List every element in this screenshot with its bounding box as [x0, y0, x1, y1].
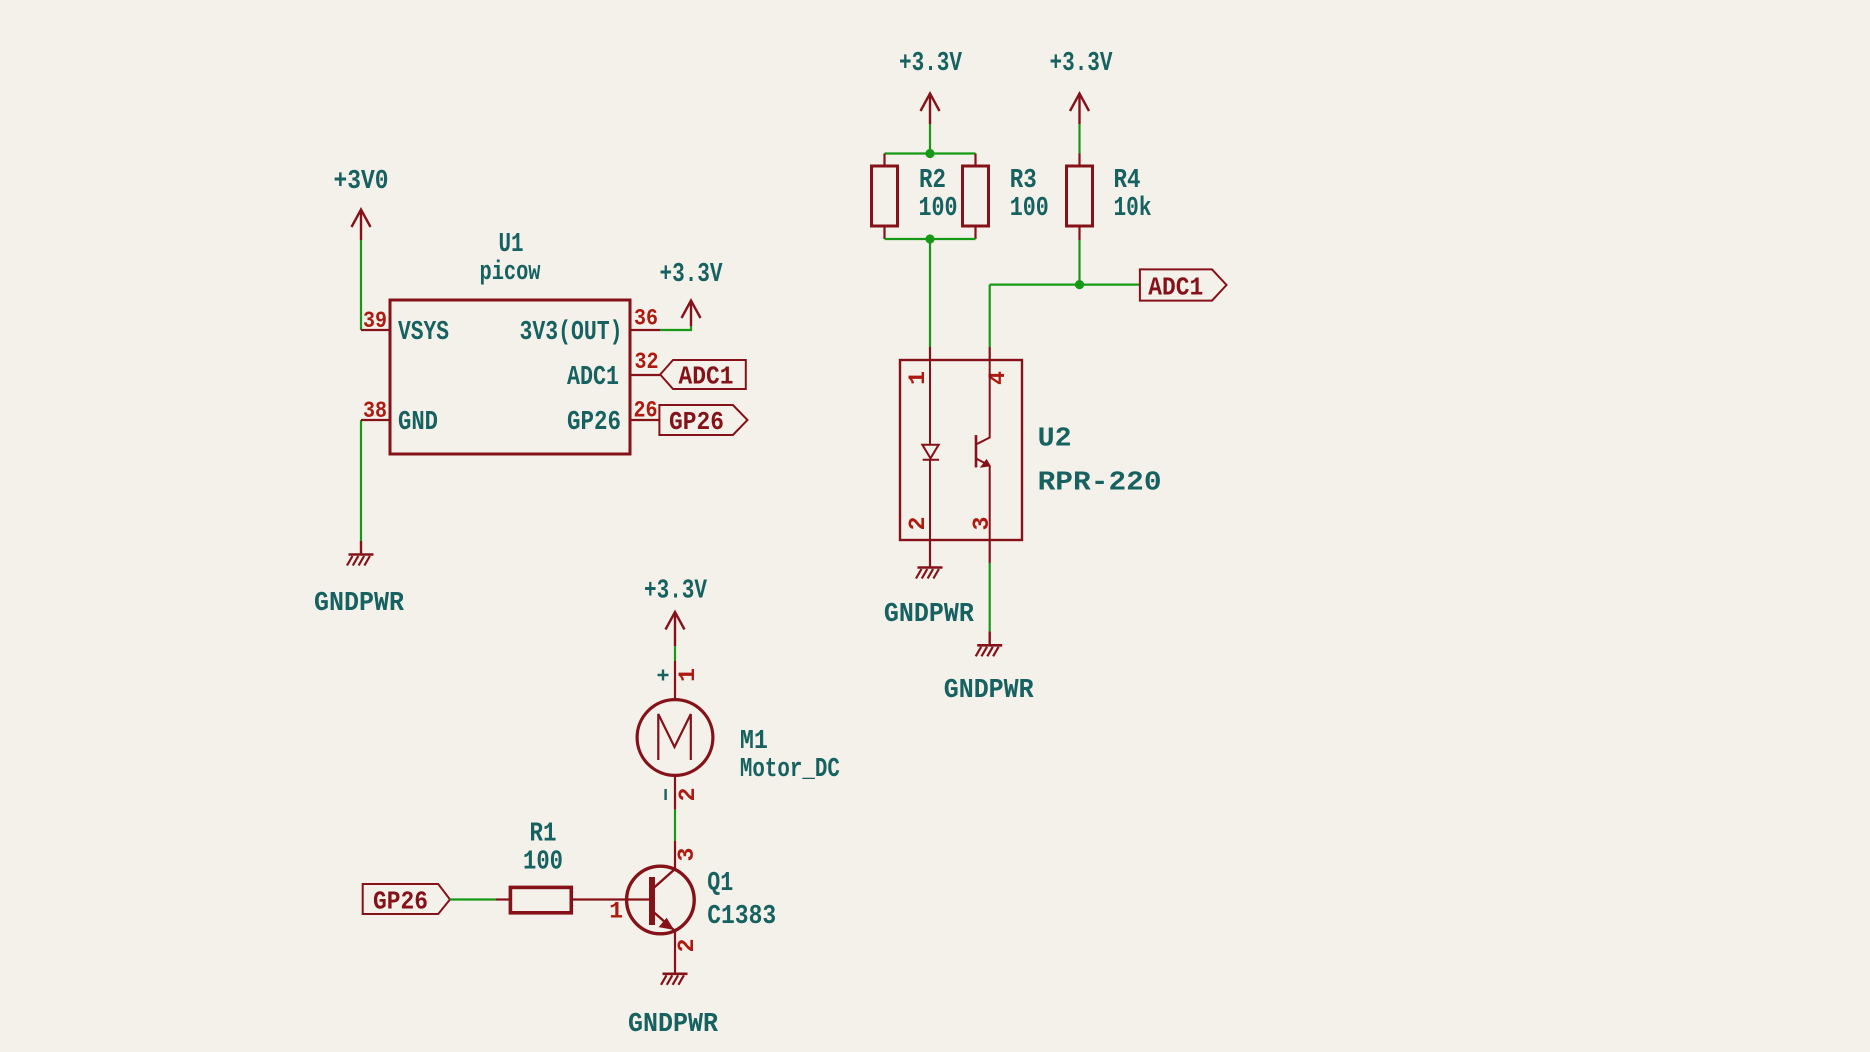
IC U1 picow body: [390, 300, 630, 454]
svg-text:GP26: GP26: [567, 408, 621, 438]
pin 36 3V3(OUT): [630, 329, 660, 331]
svg-text:M1: M1: [740, 727, 768, 757]
Q1 emitter stroke: [653, 912, 675, 932]
U2 phototransistor Q: [976, 360, 990, 540]
svg-text:GNDPWR: GNDPWR: [944, 676, 1035, 706]
svg-text:3V3(OUT): 3V3(OUT): [520, 318, 623, 348]
svg-text:U1: U1: [499, 230, 524, 260]
U2 pin 3 stub: [989, 540, 991, 563]
hier label GP26 (net): [363, 884, 450, 916]
wire motor to Q1 collector: [674, 810, 676, 841]
svg-text:R1: R1: [530, 820, 557, 850]
Q1 collector stroke: [653, 869, 675, 889]
U2 pin 4 stub: [989, 347, 991, 360]
pin 32 ADC1: [630, 374, 660, 376]
wire power to motor: [674, 646, 676, 661]
svg-text:GND: GND: [398, 408, 438, 438]
wire power to R4: [1078, 124, 1080, 154]
power symbol +3V0: [334, 167, 389, 240]
svg-text:ADC1: ADC1: [1148, 273, 1203, 303]
wire U2 pin3 to ground: [989, 563, 991, 631]
svg-text:100: 100: [1010, 194, 1049, 224]
pin 26 GP26: [630, 419, 659, 421]
resistor R3: [963, 154, 1049, 240]
resistor R4: [1067, 154, 1152, 241]
svg-text:1: 1: [675, 668, 701, 682]
ground GNDPWR (Q1): [628, 974, 719, 1040]
motor minus polarity: [664, 789, 666, 800]
svg-text:GNDPWR: GNDPWR: [884, 600, 975, 630]
svg-text:10k: 10k: [1114, 194, 1152, 224]
svg-text:3: 3: [969, 517, 995, 531]
wire power to top rail: [929, 124, 931, 154]
resistor R2: [872, 154, 958, 240]
svg-text:GNDPWR: GNDPWR: [628, 1010, 719, 1040]
power symbol +3.3V (motor): [644, 577, 708, 647]
svg-text:100: 100: [919, 194, 958, 224]
U2 pin 2 line: [929, 540, 931, 568]
svg-text:1: 1: [905, 371, 931, 385]
Q1 emitter arrow: [661, 920, 673, 929]
junction top rail: [925, 149, 934, 158]
wire R1 to Q1 base: [571, 898, 652, 900]
wire junction to U2 pin1: [929, 239, 931, 347]
junction ADC1 node: [1075, 280, 1084, 289]
wire GP26 to R1: [450, 898, 496, 900]
Q1 base bar: [649, 877, 655, 925]
wire bottom rail R2-R3: [885, 238, 976, 240]
svg-text:R3: R3: [1010, 166, 1037, 196]
ground GNDPWR (U2 pin3): [944, 631, 1035, 706]
wire node to U2 pin4: [989, 285, 991, 347]
svg-text:26: 26: [634, 398, 658, 424]
resistor R1: [496, 820, 572, 913]
U2 photodiode D: [922, 360, 939, 540]
svg-text:36: 36: [634, 306, 658, 332]
ground GNDPWR (U2 pin2): [884, 568, 975, 631]
svg-text:3: 3: [674, 848, 700, 862]
svg-text:+3.3V: +3.3V: [1050, 49, 1114, 79]
wire GND to ground: [360, 420, 362, 541]
wire +3V0 to VSYS: [360, 240, 362, 330]
motor plus polarity: [658, 670, 669, 681]
power symbol +3.3V (U1 pin36): [660, 260, 724, 326]
motor M1 body: [637, 700, 713, 776]
wire R4 to ADC1 node: [1078, 240, 1080, 285]
svg-text:100: 100: [523, 848, 563, 878]
svg-text:RPR-220: RPR-220: [1038, 469, 1162, 499]
hier label GP26 (U1): [659, 405, 747, 437]
svg-text:Q1: Q1: [707, 869, 733, 899]
U2 pin 1 stub: [929, 347, 931, 360]
svg-text:C1383: C1383: [707, 902, 776, 932]
svg-text:+3.3V: +3.3V: [660, 260, 724, 290]
svg-text:32: 32: [635, 349, 659, 375]
svg-text:2: 2: [675, 788, 701, 802]
svg-text:+3V0: +3V0: [334, 167, 389, 197]
power symbol +3.3V (R4): [1050, 49, 1114, 124]
transistor Q1 body: [627, 866, 695, 934]
svg-text:U2: U2: [1038, 425, 1072, 455]
svg-text:picow: picow: [480, 258, 542, 288]
Q1 collector pin: [674, 841, 676, 869]
svg-text:2: 2: [674, 939, 700, 953]
power symbol +3.3V (R2/R3): [899, 49, 963, 124]
svg-text:2: 2: [905, 517, 931, 531]
svg-text:GNDPWR: GNDPWR: [314, 589, 405, 619]
wire ADC1 node horizontal: [990, 284, 1140, 286]
svg-text:ADC1: ADC1: [567, 363, 619, 393]
svg-text:+3.3V: +3.3V: [644, 577, 708, 607]
ground GNDPWR (U1): [314, 541, 405, 619]
svg-text:R2: R2: [919, 166, 946, 196]
svg-text:R4: R4: [1114, 166, 1141, 196]
svg-text:+3.3V: +3.3V: [899, 49, 963, 79]
svg-text:GP26: GP26: [373, 886, 428, 916]
svg-text:1: 1: [609, 899, 623, 925]
junction bottom rail: [925, 234, 934, 243]
svg-text:ADC1: ADC1: [679, 362, 734, 392]
Q1 emitter pin: [674, 931, 676, 974]
optocoupler U2 body: [900, 360, 1022, 540]
pin 38 GND: [361, 419, 390, 421]
svg-text:GP26: GP26: [669, 407, 724, 437]
motor M1 pin 2: [674, 775, 676, 809]
motor M1 pin 1: [674, 661, 676, 700]
svg-text:39: 39: [363, 308, 387, 334]
pin 39 VSYS: [361, 329, 390, 331]
wire 3V3 to +3.3V: [660, 326, 691, 330]
svg-text:38: 38: [363, 398, 387, 424]
hier label ADC1 (net): [1140, 269, 1227, 302]
motor M glyph: [658, 714, 691, 760]
svg-text:VSYS: VSYS: [398, 318, 449, 348]
svg-text:Motor_DC: Motor_DC: [740, 755, 840, 785]
wire top rail R2-R3: [885, 152, 976, 154]
hier label ADC1 (U1): [660, 360, 746, 392]
